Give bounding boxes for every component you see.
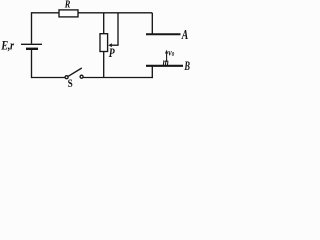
svg-text:m: m: [163, 56, 169, 69]
svg-text:v0: v0: [168, 46, 174, 58]
svg-text:S: S: [68, 78, 73, 90]
svg-text:B: B: [184, 59, 190, 73]
svg-text:A: A: [181, 27, 188, 42]
svg-text:P: P: [109, 47, 116, 61]
svg-text:E,r: E,r: [0, 38, 14, 52]
svg-text:R: R: [64, 0, 70, 11]
